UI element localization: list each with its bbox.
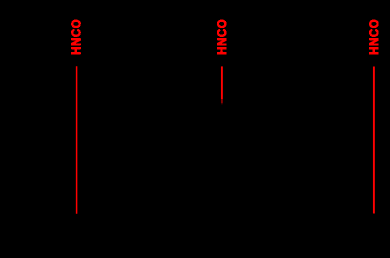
svg-text:HNCO: HNCO [367,19,382,55]
wire marker line 2 [221,66,223,99]
svg-text:HNCO: HNCO [69,19,84,55]
wire marker line 1 [76,66,78,213]
wire marker line 3 [373,67,375,214]
svg-text:HNCO: HNCO [215,19,230,55]
wire marker line 2 fading tail [221,99,223,103]
